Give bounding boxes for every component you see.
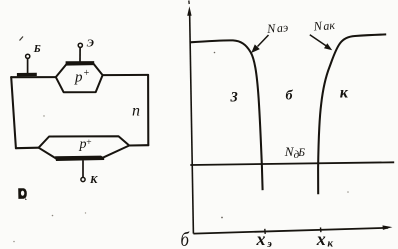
svg-text:э: э	[266, 238, 272, 249]
svg-text:К: К	[89, 174, 98, 186]
wire right edge	[147, 75, 149, 145]
y-axis tip dash	[188, 1, 190, 5]
svg-text:х: х	[256, 229, 266, 249]
tick xк	[320, 227, 322, 232]
wire base lead	[27, 59, 29, 73]
p+ emitter region (top hexagon)	[56, 63, 103, 92]
svg-text:3: 3	[230, 90, 238, 106]
scan speck	[214, 52, 216, 54]
x-axis	[193, 228, 388, 234]
wire bottom edge left segment	[16, 147, 39, 150]
stray scan mark	[20, 37, 24, 41]
curve Naк (collector acceptor profile)	[318, 34, 386, 194]
wire collector lead	[82, 160, 84, 177]
scan speck	[43, 115, 44, 116]
pointer to Naк curve	[310, 35, 326, 46]
wire bottom edge right segment	[129, 144, 148, 146]
wire left edge	[11, 77, 16, 148]
line Nдб (base donor level)	[190, 162, 394, 165]
curve Naэ (emitter acceptor profile)	[190, 40, 263, 190]
base terminal circle	[26, 54, 30, 58]
scan speck	[221, 217, 223, 219]
y-axis arrowhead	[187, 6, 191, 16]
svg-text:Э: Э	[87, 37, 94, 49]
svg-text:к: к	[340, 85, 349, 102]
x-axis arrowhead	[383, 225, 393, 230]
svg-text:к: к	[327, 238, 333, 249]
subfigure label а (left)	[18, 188, 27, 199]
base alloy contact bar	[17, 73, 37, 77]
emitter terminal circle	[78, 43, 82, 47]
tick xэ	[264, 229, 266, 234]
svg-text:Б: Б	[33, 43, 41, 55]
scan speck	[85, 212, 86, 213]
n-region wafer outline (left: top edge segments, right/left/bottom edges)	[11, 75, 148, 148]
svg-text:+: +	[84, 68, 90, 79]
emitter alloy contact bar	[66, 61, 95, 66]
svg-text:х: х	[316, 229, 326, 249]
svg-text:аэ: аэ	[276, 20, 289, 35]
scan speck	[52, 215, 54, 217]
wire emitter lead	[79, 48, 81, 62]
y-axis of concentration plot	[190, 11, 194, 234]
scan speck	[347, 191, 349, 193]
p+ collector region (bottom hexagon)	[39, 136, 130, 159]
scan speck	[13, 241, 15, 243]
svg-text:p: p	[74, 69, 83, 85]
svg-text:б: б	[286, 89, 294, 104]
svg-text:ак: ак	[323, 18, 336, 33]
pointer to Naэ curve	[258, 35, 269, 47]
wire top edge left segment	[11, 76, 56, 78]
collector alloy contact bar	[55, 156, 104, 161]
svg-text:p: p	[79, 137, 87, 152]
wire top edge right segment	[103, 74, 149, 76]
svg-text:б: б	[181, 229, 190, 249]
svg-text:Б: Б	[297, 147, 305, 159]
svg-text:+: +	[86, 138, 91, 148]
svg-text:п: п	[132, 103, 140, 120]
collector terminal circle	[81, 177, 85, 181]
